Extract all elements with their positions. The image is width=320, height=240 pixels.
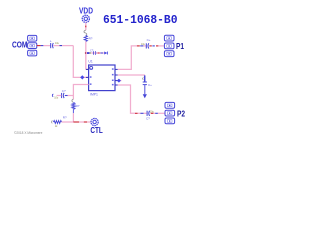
svg-text:10u: 10u xyxy=(54,97,59,100)
svg-text:©2018 X Micromere: ©2018 X Micromere xyxy=(14,131,43,135)
svg-text:651-1068-B0: 651-1068-B0 xyxy=(103,13,177,28)
svg-text:U1: U1 xyxy=(88,60,92,64)
svg-text:COM: COM xyxy=(12,40,27,50)
svg-text:VDD: VDD xyxy=(79,6,93,16)
svg-text:R?: R? xyxy=(76,104,80,108)
svg-text:R?: R? xyxy=(63,115,67,119)
svg-text:IMP1: IMP1 xyxy=(90,92,98,96)
svg-text:C?: C? xyxy=(146,117,150,121)
svg-text:P2: P2 xyxy=(177,109,185,119)
svg-text:C+: C+ xyxy=(147,38,151,42)
svg-text:10u: 10u xyxy=(141,43,146,46)
svg-text:P1: P1 xyxy=(176,41,184,51)
svg-text:C+: C+ xyxy=(148,83,152,87)
svg-text:+: + xyxy=(50,39,52,43)
svg-text:10u: 10u xyxy=(55,42,60,45)
svg-text:C?: C? xyxy=(62,89,66,93)
svg-text:CTL: CTL xyxy=(90,125,103,135)
svg-text:R?: R? xyxy=(89,36,93,40)
